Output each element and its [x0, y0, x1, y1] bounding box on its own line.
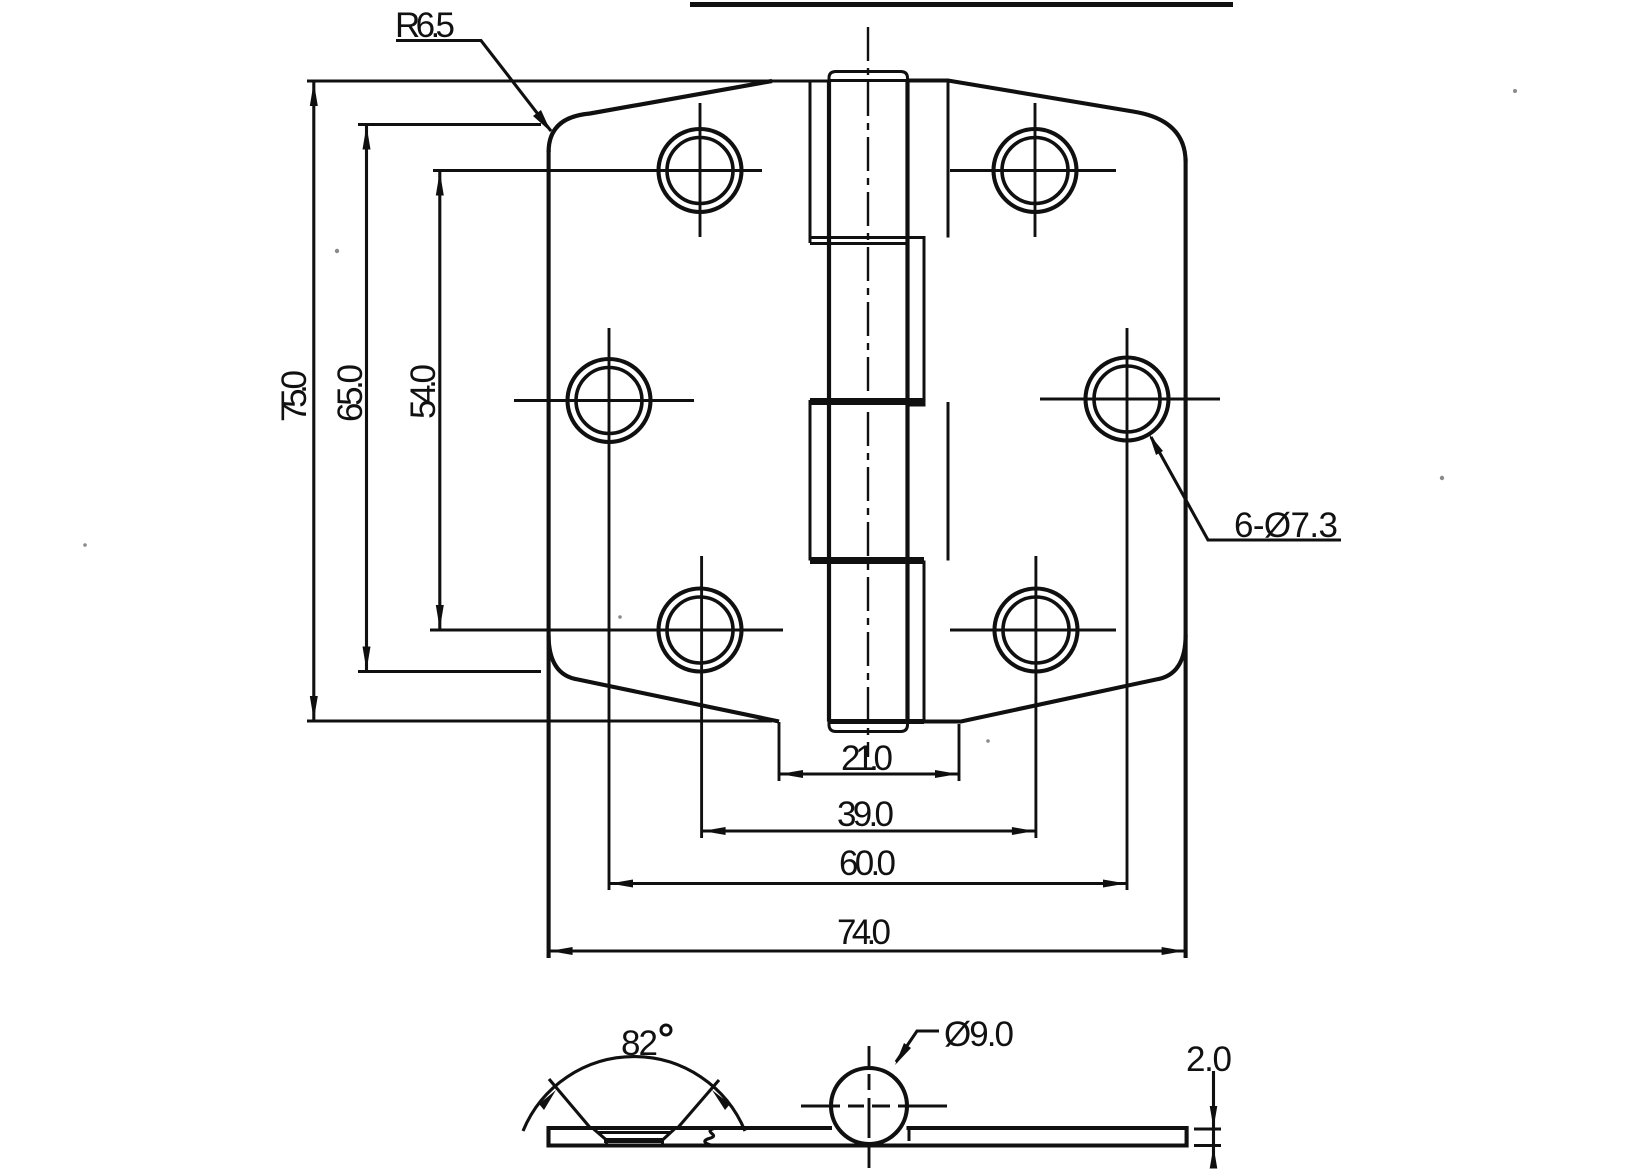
dimension line 60.0	[609, 882, 1127, 885]
svg-text:39.0: 39.0	[837, 795, 894, 834]
arrow 82 arc left	[539, 1090, 556, 1110]
svg-text:60.0: 60.0	[839, 844, 896, 883]
arrow 2.0 bottom	[1210, 1147, 1218, 1169]
svg-text:2.0: 2.0	[1186, 1040, 1232, 1079]
dimension line 75.0	[312, 81, 315, 721]
wire 54.0 top extension line (merged with top-left hole crosshair)	[433, 169, 762, 172]
dimension line 65.0	[365, 125, 368, 672]
pin centerline	[867, 27, 869, 757]
arrow 2.0 top	[1210, 1106, 1218, 1128]
arrow 82 arc right	[712, 1090, 730, 1110]
knuckle joint thick bar bottom	[829, 719, 924, 724]
arrow 21.0 right	[935, 770, 958, 778]
svg-text:Ø9.0: Ø9.0	[944, 1015, 1014, 1054]
arrow 74.0 right	[1162, 947, 1185, 955]
countersink opening inner edge	[597, 1131, 671, 1134]
arrow 74.0 left	[550, 947, 573, 955]
arrow 6-O7.3 leader	[1149, 434, 1163, 455]
svg-text:6-Ø7.3: 6-Ø7.3	[1234, 506, 1338, 545]
arrow O9.0 leader	[895, 1043, 911, 1065]
left leaf outline	[549, 81, 772, 152]
hinge pin body	[827, 81, 831, 722]
arrow 75.0 top	[310, 82, 318, 106]
svg-text:R6.5: R6.5	[395, 6, 455, 45]
extension line hole col outer-left down to 60.0	[608, 328, 611, 890]
plate outline side view	[549, 1128, 1187, 1146]
section pin crosshair horizontal	[801, 1105, 947, 1108]
hole wall right	[661, 1141, 664, 1146]
dim 2.0 ext bottom	[1194, 1144, 1221, 1147]
svg-text:65.0: 65.0	[331, 364, 370, 422]
knuckle cut line right upper	[947, 81, 950, 238]
section pin circle	[831, 1068, 907, 1144]
leader O9.0	[896, 1031, 939, 1062]
arrow 39.0 right	[1012, 827, 1035, 835]
knuckle joint line A	[810, 236, 924, 239]
extension line hole col inner-right down to 39.0	[1034, 556, 1037, 838]
hole mid-left	[568, 359, 651, 442]
arrow 60.0 left	[610, 880, 633, 888]
section pin crosshair vertical	[868, 1046, 871, 1168]
extension line 21.0 right	[958, 724, 961, 781]
knuckle cut line right lower	[947, 402, 950, 561]
svg-text:21.0: 21.0	[841, 739, 893, 778]
right knuckle rect lower	[908, 562, 925, 722]
scan border bar top	[690, 2, 1233, 7]
wire 75.0 bottom extension line	[307, 719, 772, 722]
svg-text:75.0: 75.0	[275, 370, 314, 422]
extension line 21.0 left	[778, 722, 781, 781]
right knuckle rect upper	[908, 238, 925, 406]
arrow 54.0 bottom	[436, 605, 444, 629]
hole wall left	[605, 1141, 608, 1146]
dimension line 54.0	[438, 171, 441, 631]
break squiggle	[705, 1129, 714, 1146]
hole bottom-left	[659, 589, 742, 672]
dim 2.0 line	[1212, 1071, 1215, 1168]
right leaf outline	[908, 81, 1186, 163]
scan specks	[83, 89, 1517, 743]
svg-text:74.0: 74.0	[837, 913, 891, 952]
wire 75.0 top extension line	[307, 79, 829, 82]
knuckle joint line B	[810, 242, 908, 245]
angle leg left	[549, 1079, 590, 1128]
knuckle mark right of circle	[908, 1129, 911, 1142]
svg-text:82: 82	[621, 1024, 658, 1063]
countersink left wall	[593, 1129, 607, 1141]
arrow 21.0 left	[780, 770, 803, 778]
arrow 65.0 top	[363, 126, 371, 150]
arrow R6.5 leader	[533, 110, 551, 132]
dimension line 21.0	[779, 772, 959, 775]
dimension line 74.0	[549, 949, 1186, 952]
hole top-right	[994, 129, 1077, 212]
svg-text:54.0: 54.0	[404, 364, 443, 419]
extension line hole col inner-left down to 39.0	[700, 556, 703, 838]
wire 65.0 top extension line	[358, 123, 541, 126]
dimension line 39.0	[702, 829, 1036, 832]
hole mid-right	[1086, 358, 1169, 441]
countersink bottom thick line	[604, 1138, 664, 1143]
arrow 39.0 left	[703, 827, 726, 835]
arrow 60.0 right	[1103, 880, 1126, 888]
angle arc 82	[523, 1057, 745, 1131]
hole bottom-right	[995, 589, 1078, 672]
hole top-left	[659, 129, 742, 212]
leader R6.5	[396, 41, 551, 132]
arrow 75.0 bottom	[310, 696, 318, 720]
arrow 65.0 bottom	[363, 647, 371, 671]
arrow 54.0 top	[436, 172, 444, 196]
countersink right wall	[662, 1129, 675, 1141]
dim 2.0 ext top	[1194, 1128, 1221, 1131]
knuckle cut line left upper	[809, 81, 812, 243]
wire 54.0 bottom extension line (merged with bottom-left hole crosshair)	[430, 629, 783, 632]
angle leg right	[678, 1080, 719, 1128]
hinge pin bottom cap	[829, 722, 908, 732]
knuckle cut line left lower / left knuckle rect	[809, 400, 812, 561]
degree mark	[661, 1025, 671, 1035]
extension line hole col outer-right down to 60.0	[1126, 328, 1129, 890]
knuckle joint thick bar mid-lower	[810, 557, 924, 564]
hinge pin top cap	[829, 72, 908, 81]
knuckle joint thick bar mid-upper	[810, 398, 924, 405]
wire 65.0 bottom extension line	[358, 670, 541, 673]
leader 6-O7.3	[1151, 437, 1341, 540]
